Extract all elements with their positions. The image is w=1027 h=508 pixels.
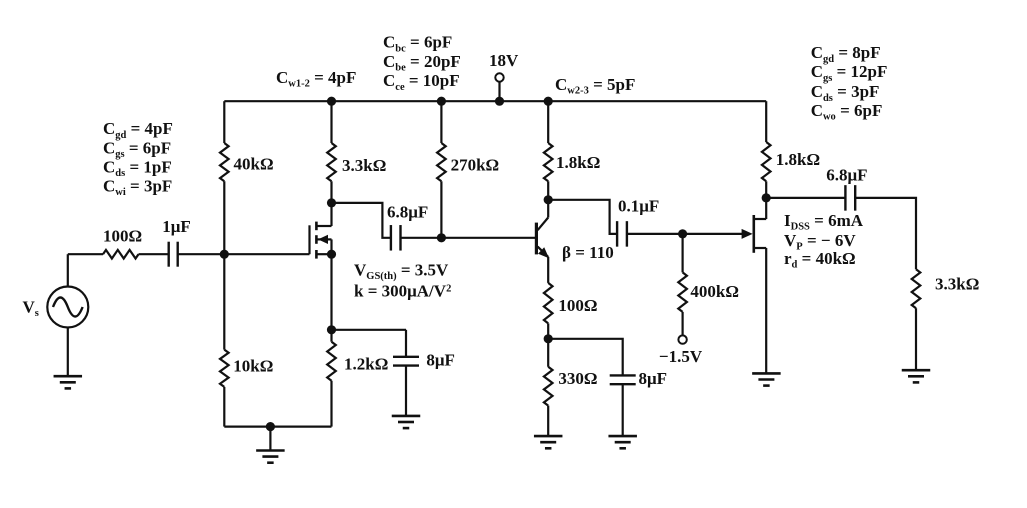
node 270k bottom xyxy=(437,233,446,242)
svg-text:1.2kΩ: 1.2kΩ xyxy=(344,355,388,374)
wire input left xyxy=(68,253,103,255)
label 8uF emitter xyxy=(639,369,668,388)
wire to C1 xyxy=(139,253,169,255)
label Cbc=6pF xyxy=(383,33,452,55)
wire 8uF1 to ground xyxy=(405,366,407,416)
node input-divider xyxy=(220,250,229,259)
label Cw2-3=5pF xyxy=(555,75,635,97)
wire rail to 40k xyxy=(223,101,225,143)
node 400k top xyxy=(678,229,687,238)
svg-text:8μF: 8μF xyxy=(639,369,668,388)
ground Vs xyxy=(54,376,83,388)
label 400k xyxy=(690,282,739,301)
label 6.8uF output xyxy=(826,166,867,185)
capacitor 1uF xyxy=(169,242,178,267)
node rail-270k xyxy=(437,97,446,106)
svg-text:100Ω: 100Ω xyxy=(558,296,597,315)
label 100ohm emitter xyxy=(558,296,597,315)
label Cds=3pF xyxy=(811,82,880,104)
wire C3 to gate xyxy=(627,233,742,235)
wire top supply rail xyxy=(224,100,766,102)
label Vs xyxy=(23,298,39,320)
wire 40k to node xyxy=(223,181,225,254)
ground emitter xyxy=(534,436,563,448)
node jfet drain xyxy=(762,193,771,202)
terminal -1.5V xyxy=(678,335,686,343)
label -1.5V xyxy=(659,347,703,366)
wire 330 to ground xyxy=(547,406,549,437)
svg-text:1μF: 1μF xyxy=(162,217,191,236)
ground jfet xyxy=(752,373,781,385)
svg-text:270kΩ: 270kΩ xyxy=(451,156,500,175)
label Cgs=6pF xyxy=(103,138,171,160)
wire drain to C2 xyxy=(332,203,391,238)
resistor 1.8k jfet xyxy=(762,142,771,181)
wire 3.3k to drain node xyxy=(330,181,332,203)
svg-text:10kΩ: 10kΩ xyxy=(233,357,273,376)
resistor 3.3k drain xyxy=(327,143,336,181)
label 1.8k jfet xyxy=(776,150,820,169)
svg-text:Cwi​ = 3pF: Cwi​ = 3pF xyxy=(103,177,172,199)
wire 1.2k bottom xyxy=(330,381,332,427)
wire Vs to input xyxy=(67,254,69,286)
resistor 1.8k collector xyxy=(544,143,553,181)
capacitor 6.8uF interstage xyxy=(391,225,401,251)
label 6.8uF interstage xyxy=(387,203,428,222)
transistor Q1 bjt xyxy=(536,200,549,283)
svg-text:100Ω: 100Ω xyxy=(103,227,142,246)
label Cw1-2=4pF xyxy=(276,68,356,90)
label IDSS xyxy=(784,211,864,233)
wire C4 to load xyxy=(855,198,916,269)
label 18V xyxy=(489,51,519,70)
wire gate xyxy=(224,253,309,255)
label beta xyxy=(562,243,614,262)
svg-text:k = 300μA/V2: k = 300μA/V2 xyxy=(354,282,451,301)
wire node to 10k xyxy=(223,254,225,349)
transistor M1 mosfet xyxy=(310,203,332,259)
ground load xyxy=(902,370,931,382)
svg-text:40kΩ: 40kΩ xyxy=(234,155,274,174)
label Cgd=4pF xyxy=(103,119,173,141)
resistor 400k xyxy=(678,272,687,312)
node 1.2k top xyxy=(327,325,336,334)
label 270k xyxy=(451,156,500,175)
label rd xyxy=(784,249,856,271)
wire source down xyxy=(330,254,332,330)
wire rail to 3.3k xyxy=(330,101,332,143)
node drain xyxy=(327,198,336,207)
node collector xyxy=(544,195,553,204)
wire bottom xyxy=(224,426,331,428)
wire 1.8k to out node xyxy=(765,181,767,198)
node bottom ground xyxy=(266,422,275,431)
label 40k xyxy=(234,155,274,174)
node rail-3.3k xyxy=(327,97,336,106)
wire 100 to node xyxy=(547,323,549,338)
node rail-18V xyxy=(495,97,504,106)
label Cgs=12pF xyxy=(811,62,888,84)
wire 270k down xyxy=(440,181,442,238)
wire collector to C3 xyxy=(548,200,617,234)
wire rail corner right xyxy=(765,101,767,142)
wire ground stem xyxy=(269,427,271,451)
capacitor 8uF source xyxy=(393,357,419,366)
svg-text:330Ω: 330Ω xyxy=(558,369,597,388)
transistor J1 jfet xyxy=(742,198,767,253)
wire 8uF2 to ground xyxy=(622,384,624,436)
label 330 xyxy=(558,369,597,388)
label k300 xyxy=(354,282,451,301)
label 1uF xyxy=(162,217,191,236)
wire rail to 1.8k xyxy=(547,101,549,143)
node rail-1.8k xyxy=(544,97,553,106)
resistor 3.3k load xyxy=(912,269,921,308)
wire 10k down xyxy=(223,387,225,427)
label 10k xyxy=(233,357,273,376)
wire out to C4 xyxy=(766,197,845,199)
label 100ohm input xyxy=(103,227,142,246)
node emitter tap xyxy=(544,334,553,343)
ground divider xyxy=(256,451,285,463)
label Cds=1pF xyxy=(103,157,172,179)
label Cce=10pF xyxy=(383,71,460,93)
wire to 8uF1 xyxy=(332,330,407,357)
wire to 330 xyxy=(547,339,549,367)
resistor 40k xyxy=(220,143,229,181)
label 1.8k collector xyxy=(556,153,600,172)
ground 8uF source xyxy=(392,416,421,428)
svg-text:Cwo​ = 6pF: Cwo​ = 6pF xyxy=(811,101,883,123)
label 8uF source xyxy=(426,351,455,370)
svg-text:1.8kΩ: 1.8kΩ xyxy=(776,150,820,169)
label VP xyxy=(784,231,856,253)
capacitor 8uF emitter xyxy=(610,375,636,384)
svg-text:Cce​ = 10pF: Cce​ = 10pF xyxy=(383,71,460,93)
source Vs xyxy=(47,287,88,328)
svg-text:6.8μF: 6.8μF xyxy=(826,166,867,185)
svg-text:6.8μF: 6.8μF xyxy=(387,203,428,222)
resistor 10k xyxy=(220,350,229,387)
svg-text:−1.5V: −1.5V xyxy=(659,347,703,366)
resistor 100ohm emitter xyxy=(544,283,553,324)
node source xyxy=(327,250,336,259)
resistor 1.2k xyxy=(327,342,336,381)
label 0.1uF xyxy=(618,197,659,216)
capacitor 0.1uF xyxy=(617,221,627,247)
label Cgd=8pF xyxy=(811,43,881,65)
svg-text:18V: 18V xyxy=(489,51,519,70)
label 3.3k load xyxy=(935,275,979,294)
label 3.3k drain xyxy=(342,156,386,175)
wire Vs to ground xyxy=(67,328,69,377)
label Cbe=20pF xyxy=(383,52,461,74)
label VGSth xyxy=(354,261,449,283)
ground 8uF emitter xyxy=(608,436,637,448)
wire rail to 270k xyxy=(440,101,442,143)
wire C1 to node xyxy=(178,253,225,255)
svg-text:1.8kΩ: 1.8kΩ xyxy=(556,153,600,172)
wire 400k bottom xyxy=(681,312,683,335)
capacitor 6.8uF output xyxy=(845,185,855,211)
18V supply terminal xyxy=(495,73,503,101)
resistor 270k xyxy=(437,143,446,181)
svg-text:0.1μF: 0.1μF xyxy=(618,197,659,216)
svg-text:β = 110: β = 110 xyxy=(562,243,614,262)
svg-text:Cw1-2​ = 4pF: Cw1-2​ = 4pF xyxy=(276,68,356,90)
wire 1.8k to collector node xyxy=(547,181,549,200)
wire tap to 8uF2 xyxy=(548,339,623,375)
label Cwi=3pF xyxy=(103,177,172,199)
svg-text:3.3kΩ: 3.3kΩ xyxy=(342,156,386,175)
resistor 100ohm input xyxy=(103,250,139,259)
resistor 330 xyxy=(544,367,553,406)
wire C2 to base xyxy=(400,237,535,239)
wire load to ground xyxy=(915,308,917,370)
svg-text:3.3kΩ: 3.3kΩ xyxy=(935,275,979,294)
label Cwo=6pF xyxy=(811,101,883,123)
wire jfet source to ground xyxy=(765,248,767,373)
svg-text:8μF: 8μF xyxy=(426,351,455,370)
wire 400k top xyxy=(681,234,683,273)
label 1.2k xyxy=(344,355,388,374)
svg-text:Cgs​ = 12pF: Cgs​ = 12pF xyxy=(811,62,888,84)
svg-text:Cw2-3​ = 5pF: Cw2-3​ = 5pF xyxy=(555,75,635,97)
wire 1.2k top xyxy=(330,330,332,342)
svg-text:400kΩ: 400kΩ xyxy=(690,282,739,301)
